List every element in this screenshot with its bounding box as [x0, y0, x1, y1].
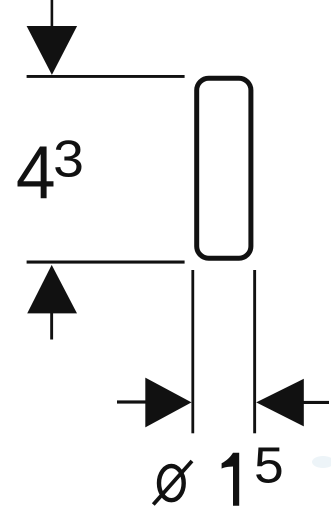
left diameter arrow (right-pointing): [145, 378, 191, 428]
bottom dimension line: [27, 261, 185, 264]
dimension label 4: [16, 130, 56, 214]
watermark smudge: [312, 456, 331, 468]
right diameter arrow tail wire: [303, 401, 329, 404]
svg-text:4: 4: [16, 130, 56, 214]
right extension line: [253, 270, 256, 433]
top dimension line: [27, 75, 185, 78]
svg-text:5: 5: [254, 438, 284, 495]
bottom arrow tail wire: [50, 313, 53, 340]
top dimension arrow (down): [27, 26, 78, 75]
left diameter arrow tail wire: [117, 400, 146, 403]
diameter label 1: [222, 453, 240, 506]
right diameter arrow (left-pointing): [256, 379, 304, 427]
dimension label superscript 3: [53, 130, 84, 188]
top arrow tail wire: [51, 0, 54, 28]
tube body (rounded rect): [197, 78, 251, 258]
diameter label superscript 5: [254, 438, 284, 495]
left extension line: [191, 270, 194, 433]
diameter symbol: [153, 461, 192, 505]
svg-text:3: 3: [53, 130, 84, 188]
bottom dimension arrow (up): [27, 265, 77, 314]
